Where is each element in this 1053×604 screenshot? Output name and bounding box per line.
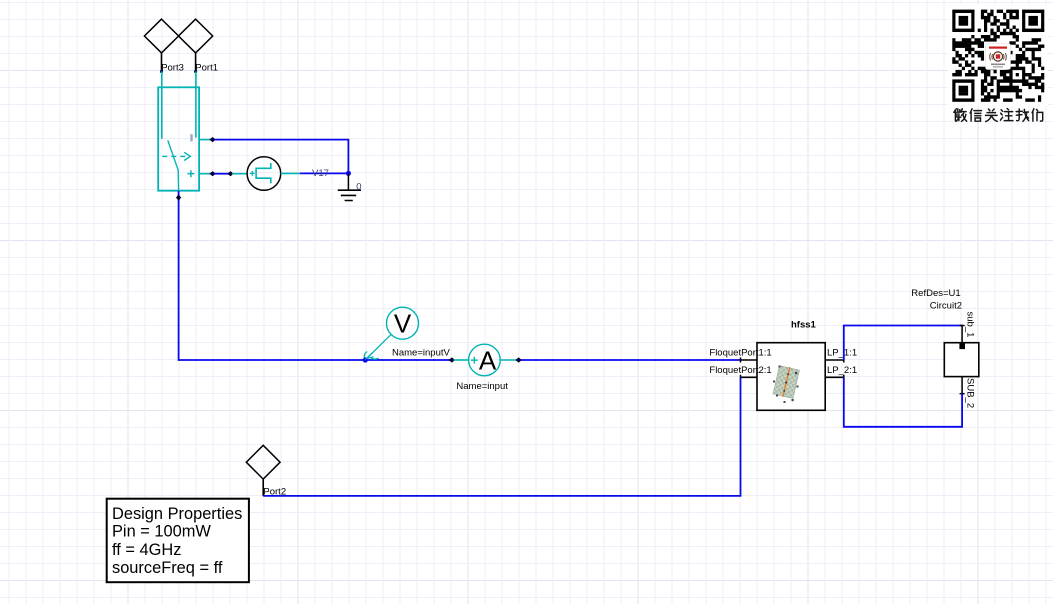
wire ammeter left cyan <box>454 359 469 361</box>
wire W5 horizontal to junction <box>179 359 366 361</box>
wire W7 top horizontal <box>843 325 962 327</box>
hfss1 pin FloquetPort1 line <box>741 359 758 361</box>
wire W1 terminal A to corner <box>214 139 349 141</box>
voltage source V17 bracket glyph <box>256 163 271 183</box>
wire V17 right cyan <box>281 172 300 174</box>
hfss1 pin LP_1 line <box>825 359 844 361</box>
hfss1 thumbnail image <box>773 365 800 399</box>
wire W6 port2 horizontal <box>263 495 741 497</box>
marker diamond on wire B right <box>227 171 233 176</box>
voltmeter VM1 circle <box>387 307 419 339</box>
ground stem <box>347 173 349 190</box>
ammeter AM1 plus <box>471 357 478 364</box>
svg-text:Pin = 100mW: Pin = 100mW <box>112 523 211 541</box>
junction dot ground node <box>346 171 351 176</box>
svg-text:FloquetPort2:1: FloquetPort2:1 <box>709 365 771 376</box>
subcircuit U1 pin SUB_2 line <box>961 377 963 394</box>
hfss1 component box <box>757 343 825 411</box>
svg-text:V17: V17 <box>312 168 329 179</box>
junction dot node vin <box>363 357 368 362</box>
hfss1 thumbnail corner specks <box>773 366 799 404</box>
subcircuit U1 box <box>944 343 979 377</box>
wire W2 blue segment <box>214 173 229 175</box>
svg-text:LP_2:1: LP_2:1 <box>827 365 857 376</box>
switch S1 control dashed arrow <box>162 152 190 160</box>
wire W8 SUB_2 down <box>961 394 963 428</box>
svg-text:Name=inputV: Name=inputV <box>392 347 450 358</box>
svg-text:SUB_2: SUB_2 <box>965 378 976 408</box>
wire Port3 to switch contact <box>161 72 163 139</box>
subcircuit U1 pin sub_1 line <box>961 326 963 343</box>
marker diamond ammeter right <box>516 357 522 362</box>
marker diamond on wire A <box>209 137 215 142</box>
subcircuit U1 pin sub_1 tick <box>960 325 965 327</box>
port P3 pin stem <box>161 53 163 72</box>
voltmeter VM1 probe arrow <box>364 334 391 359</box>
svg-text:RefDes=U1: RefDes=U1 <box>911 288 960 299</box>
voltage source V17 circle <box>247 157 281 191</box>
port P3 diamond symbol <box>144 19 178 53</box>
design properties text box <box>107 499 249 583</box>
wire W8 up to LP_2 <box>843 377 845 427</box>
switch S1 plus terminal mark <box>187 170 194 177</box>
wire W5 junction to ammeter <box>365 359 451 361</box>
ground symbol <box>338 190 361 200</box>
QR caption (WeChat follow us) <box>954 109 1043 122</box>
hfss1 pin FloquetPort1 tick <box>740 358 742 363</box>
hfss1 pin FloquetPort2 tick <box>740 375 742 380</box>
svg-text:Port3: Port3 <box>161 63 184 74</box>
port P1 pin dot <box>194 70 197 73</box>
subcircuit U1 pin SUB_2 tick <box>960 393 965 395</box>
wire W4 switch pole down <box>178 191 180 361</box>
wire W8 bottom horizontal <box>844 426 962 428</box>
svg-text:sub_1: sub_1 <box>965 312 976 338</box>
switch S1 arm <box>168 140 179 190</box>
svg-text:Circuit2: Circuit2 <box>930 300 962 311</box>
label SUB_2 (rotated) <box>965 378 976 408</box>
wire Port1 to switch contact <box>195 72 197 138</box>
svg-text:A: A <box>479 345 497 375</box>
svg-text:0: 0 <box>356 181 361 192</box>
port P3 pin dot <box>160 70 163 73</box>
wire W6 vertical to FloquetPort2 <box>740 377 742 496</box>
hfss1 pin LP_1 tick <box>843 358 845 363</box>
marker diamond on wire B left <box>209 171 215 176</box>
wire W7 LP_1 up <box>843 326 845 361</box>
wire ammeter right cyan <box>500 359 517 361</box>
QR code watermark <box>948 5 1048 106</box>
svg-text:Design Properties: Design Properties <box>112 505 242 523</box>
voltage source V17 plus sign <box>250 171 255 176</box>
svg-text:sourceFreq = ff: sourceFreq = ff <box>112 559 223 577</box>
port P2 diamond symbol <box>246 445 280 479</box>
svg-text:V: V <box>394 309 412 339</box>
wire V17 right blue to junction <box>300 172 348 174</box>
wire stub switch terminal A <box>199 139 212 141</box>
svg-text:LP_1:1: LP_1:1 <box>827 348 857 359</box>
svg-text:hfss1: hfss1 <box>791 320 817 331</box>
svg-text:Port1: Port1 <box>195 63 218 74</box>
ammeter AM1 circle <box>469 344 501 376</box>
label sub_1 (rotated) <box>965 312 976 338</box>
svg-text:Name=input: Name=input <box>456 381 508 392</box>
wire W5 ammeter to hfss pin1 <box>521 359 741 361</box>
marker diamond on pole wire <box>176 194 181 200</box>
wire W1 vertical to junction <box>347 140 349 174</box>
switch S1 contact tick (grey) <box>190 134 192 141</box>
marker diamond ammeter left <box>449 357 455 362</box>
wire W2 cyan to source V17 <box>232 173 247 175</box>
switch S1 body <box>158 87 199 190</box>
hfss1 pin FloquetPort2 line <box>741 376 758 378</box>
port P1 pin stem <box>195 53 197 72</box>
hfss1 pin LP_2 tick <box>843 375 845 380</box>
QR code center logo <box>986 44 1011 70</box>
hfss1 pin LP_2 line <box>825 376 844 378</box>
port P2 pin stem <box>262 479 264 496</box>
svg-text:FloquetPort1:1: FloquetPort1:1 <box>709 348 771 359</box>
subcircuit U1 pin1 square marker <box>959 344 965 350</box>
wire stub switch terminal B <box>199 173 212 175</box>
svg-text:ff = 4GHz: ff = 4GHz <box>112 541 181 559</box>
port P1 diamond symbol <box>179 19 213 53</box>
